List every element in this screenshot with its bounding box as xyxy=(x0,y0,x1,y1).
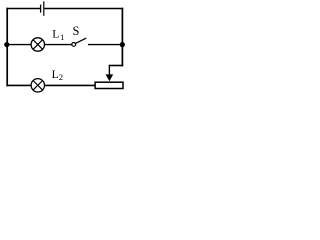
lamp L2 circle xyxy=(31,79,44,92)
wire: top-left segment (battery to top-left corner) xyxy=(6,8,40,10)
switch S pivot contact xyxy=(72,43,76,47)
wire: middle branch, lamp L1 to switch xyxy=(44,44,71,46)
rheostat R body xyxy=(95,82,123,88)
switch S blade (open) xyxy=(76,38,87,43)
svg-text:L: L xyxy=(52,28,59,41)
battery cell: short plate (negative) xyxy=(40,5,42,13)
svg-text:S: S xyxy=(73,24,80,38)
junction node: left (middle branch to left wire) xyxy=(4,42,9,47)
wire: bottom-left horizontal (left corner to lamp L2) xyxy=(6,84,30,86)
wire: left vertical xyxy=(6,8,8,87)
svg-text:L: L xyxy=(52,68,59,81)
rheostat wiper arrowhead xyxy=(106,74,114,81)
wire: bottom horizontal (lamp L2 to rheostat left terminal) xyxy=(44,84,95,86)
lamp L1 cross xyxy=(33,40,43,50)
svg-text:1: 1 xyxy=(60,33,64,42)
wire: middle branch, left junction to lamp L1 xyxy=(7,44,31,46)
wire: wiper shaft vertical xyxy=(108,65,110,76)
battery cell: long plate (positive) xyxy=(43,1,45,16)
wire: right vertical (top corner down to wiper step) xyxy=(121,8,123,67)
svg-text:2: 2 xyxy=(59,72,63,82)
wire: middle branch, switch to right junction xyxy=(88,44,122,46)
wire: wiper step horizontal (right wire to wiper) xyxy=(109,65,123,67)
junction node: right (middle branch to right wire) xyxy=(120,42,125,47)
lamp L2 cross xyxy=(33,81,43,91)
wire: top-right segment (battery to top-right corner) xyxy=(44,8,123,10)
lamp L1 circle xyxy=(31,38,44,51)
